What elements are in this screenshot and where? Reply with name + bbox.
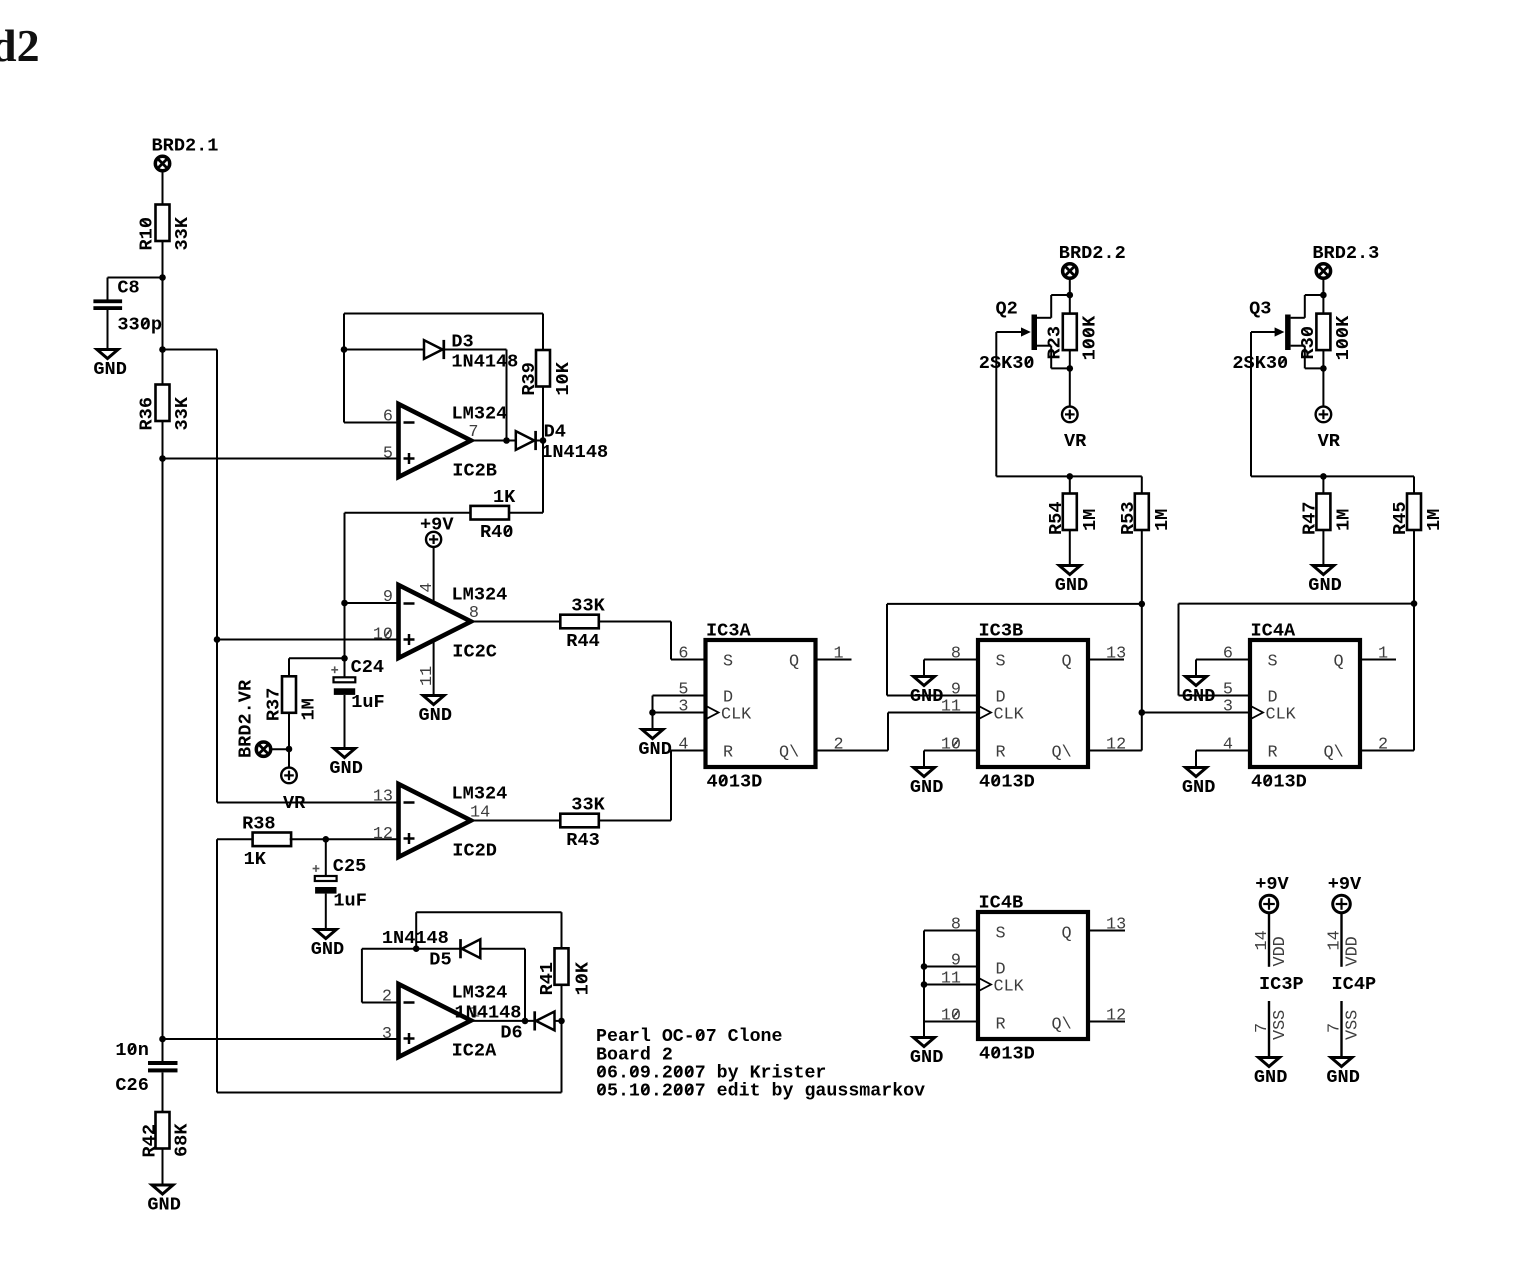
wire — [1179, 695, 1251, 697]
junction — [649, 709, 656, 716]
svg-text:2: 2 — [382, 988, 392, 1007]
pin number 4 — [418, 583, 437, 593]
svg-text:3: 3 — [678, 698, 688, 717]
wire — [1142, 712, 1250, 714]
svg-text:BRD2.2: BRD2.2 — [1059, 243, 1126, 264]
wire — [924, 984, 978, 986]
junction — [159, 455, 166, 462]
ground — [311, 930, 344, 960]
pin stub Q (IC3B pin 13) — [1088, 659, 1124, 661]
capacitor C24 — [331, 657, 384, 713]
wire — [888, 712, 978, 714]
svg-text:Board 2: Board 2 — [596, 1045, 673, 1065]
junction — [1320, 292, 1327, 299]
junction — [1139, 601, 1146, 608]
wire — [1322, 278, 1324, 295]
resistor R10 — [137, 205, 194, 251]
power symbol +9V — [1333, 895, 1351, 913]
wire — [1322, 350, 1324, 368]
svg-text:GND: GND — [147, 1194, 180, 1215]
resistor R53 — [1118, 494, 1173, 536]
wire — [599, 820, 671, 822]
resistor R43 — [560, 795, 605, 851]
wire — [1195, 660, 1197, 677]
svg-text:GND: GND — [638, 739, 671, 760]
junction — [522, 1018, 529, 1025]
svg-text:1N4148: 1N4148 — [455, 1002, 522, 1023]
transistor Q2 (2SK30) — [996, 295, 1070, 368]
wire — [1413, 604, 1415, 751]
svg-text:IC4P: IC4P — [1332, 974, 1377, 995]
wire — [217, 1092, 562, 1094]
svg-text:Q\: Q\ — [1324, 744, 1344, 763]
svg-text:7: 7 — [1253, 1023, 1272, 1033]
wire — [471, 621, 560, 623]
svg-text:R30: R30 — [1298, 326, 1319, 359]
wire — [325, 839, 327, 876]
pin stub Q (IC4B pin 13) — [1089, 930, 1125, 932]
resistor R41 — [537, 948, 594, 995]
wire — [887, 695, 978, 697]
resistor R44 — [560, 596, 605, 652]
wire — [671, 659, 706, 661]
wire — [1088, 750, 1142, 752]
svg-text:R40: R40 — [480, 522, 513, 543]
wire — [163, 458, 399, 460]
junction — [286, 746, 293, 753]
wire — [599, 621, 671, 623]
svg-text:4013D: 4013D — [1251, 772, 1307, 793]
io pin BRD2.1 — [155, 156, 169, 170]
wire — [216, 350, 218, 803]
ground — [638, 730, 671, 760]
svg-text:12: 12 — [1106, 736, 1126, 755]
wire — [507, 512, 543, 514]
wire — [555, 1020, 562, 1022]
svg-text:GND: GND — [910, 777, 943, 798]
svg-text:CLK: CLK — [994, 978, 1025, 997]
op-amp IC2D — [399, 784, 472, 857]
wire — [444, 349, 507, 351]
svg-text:7: 7 — [1325, 1023, 1344, 1033]
svg-text:D5: D5 — [429, 950, 451, 971]
wire — [670, 751, 672, 821]
pin number — [941, 1007, 961, 1026]
svg-text:GND: GND — [1326, 1067, 1359, 1088]
junction — [1067, 473, 1074, 480]
svg-text:8: 8 — [469, 604, 479, 623]
ground — [1326, 1058, 1359, 1088]
junction — [1320, 473, 1327, 480]
svg-text:IC3P: IC3P — [1259, 974, 1304, 995]
flip-flop IC3B — [978, 621, 1088, 793]
svg-text:R37: R37 — [263, 688, 284, 721]
svg-text:GND: GND — [910, 1047, 943, 1068]
wire — [561, 912, 563, 949]
svg-text:LM324: LM324 — [452, 983, 508, 1004]
svg-text:R53: R53 — [1118, 502, 1139, 535]
wire — [433, 641, 435, 696]
svg-text:Q\: Q\ — [1052, 744, 1072, 763]
svg-text:IC4A: IC4A — [1251, 621, 1296, 642]
wire — [1322, 530, 1324, 566]
svg-text:2: 2 — [1378, 736, 1388, 755]
wire — [1141, 530, 1143, 604]
svg-text:11: 11 — [941, 698, 961, 717]
resistor R37 — [263, 676, 319, 721]
junction — [323, 836, 330, 843]
wire — [361, 949, 363, 1003]
wire — [924, 966, 978, 968]
svg-text:GND: GND — [1308, 575, 1341, 596]
svg-text:IC2B: IC2B — [452, 461, 497, 482]
wire — [653, 695, 706, 697]
junction — [341, 655, 348, 662]
wire — [1069, 476, 1071, 494]
wire — [288, 749, 290, 768]
wire — [923, 1022, 925, 1038]
wire — [1178, 604, 1180, 696]
wire — [561, 1021, 563, 1093]
wire — [887, 603, 1142, 605]
wire — [996, 475, 1142, 477]
wire — [1413, 530, 1415, 604]
svg-text:D4: D4 — [544, 421, 566, 442]
svg-text:1M: 1M — [1080, 509, 1101, 531]
resistor R42 — [140, 1112, 193, 1158]
wire — [288, 658, 290, 676]
label 2SK30 (Q3) — [1232, 353, 1288, 374]
wire — [1195, 751, 1197, 768]
wire — [107, 310, 109, 350]
svg-text:GND: GND — [311, 939, 344, 960]
svg-text:2SK30: 2SK30 — [1232, 353, 1288, 374]
svg-text:7: 7 — [468, 423, 478, 442]
wire — [561, 984, 563, 1021]
svg-text:9: 9 — [383, 588, 393, 607]
wire — [289, 657, 345, 659]
svg-text:GND: GND — [1055, 575, 1088, 596]
resistor R40 — [471, 487, 517, 543]
junction — [413, 945, 420, 952]
svg-text:1uF: 1uF — [351, 692, 384, 713]
wire — [163, 1038, 399, 1040]
wire — [995, 332, 997, 476]
svg-text:100K: 100K — [1333, 315, 1354, 360]
wire — [1196, 750, 1250, 752]
flip-flop IC3A — [706, 621, 816, 793]
diode D4 — [516, 431, 536, 450]
wire — [1069, 350, 1071, 368]
wire — [923, 751, 925, 768]
svg-text:6: 6 — [383, 408, 393, 427]
wire — [652, 713, 654, 730]
svg-text:GND: GND — [93, 359, 126, 380]
wire — [416, 911, 561, 913]
junction — [921, 963, 928, 970]
svg-text:05.10.2007 edit by gaussmarkov: 05.10.2007 edit by gaussmarkov — [596, 1082, 925, 1102]
power pin VDD 14 (IC3P) — [1268, 913, 1270, 967]
svg-text:Q2: Q2 — [996, 299, 1018, 320]
pin number — [941, 736, 961, 755]
svg-text:11: 11 — [418, 666, 437, 686]
svg-text:S: S — [723, 653, 733, 672]
wire — [1322, 368, 1324, 406]
wire — [506, 350, 508, 441]
wire — [217, 639, 399, 641]
svg-text:4013D: 4013D — [707, 772, 763, 793]
svg-text:S: S — [996, 925, 1006, 944]
svg-text:CLK: CLK — [721, 706, 752, 725]
svg-text:CLK: CLK — [1266, 706, 1297, 725]
svg-text:1M: 1M — [298, 698, 319, 720]
wire — [344, 422, 399, 424]
ground — [1055, 566, 1088, 596]
svg-text:13: 13 — [373, 788, 393, 807]
wire — [162, 171, 164, 206]
wire — [345, 602, 399, 604]
wire — [344, 313, 543, 315]
wire — [924, 659, 978, 661]
text block: title and dates — [596, 1027, 925, 1102]
svg-text:1N4148: 1N4148 — [382, 928, 449, 949]
svg-text:10n: 10n — [115, 1040, 148, 1061]
svg-text:1uF: 1uF — [333, 891, 366, 912]
wire — [536, 440, 543, 442]
svg-text:1: 1 — [1378, 645, 1388, 664]
svg-text:BRD2.1: BRD2.1 — [152, 136, 219, 157]
junction — [1139, 709, 1146, 716]
svg-text:4: 4 — [418, 583, 437, 593]
diode D6 — [535, 1011, 555, 1030]
svg-text:R43: R43 — [566, 830, 599, 851]
svg-text:33K: 33K — [172, 396, 193, 430]
svg-text:3: 3 — [1223, 698, 1233, 717]
wire — [1069, 368, 1071, 406]
wire — [216, 839, 218, 1092]
svg-text:VR: VR — [1064, 431, 1087, 452]
junction — [1320, 365, 1327, 372]
wire — [290, 838, 399, 840]
svg-text:R: R — [723, 744, 733, 763]
wire — [270, 748, 289, 750]
svg-text:R38: R38 — [242, 814, 275, 835]
svg-text:10K: 10K — [572, 961, 593, 995]
wire — [362, 1002, 399, 1004]
wire — [542, 314, 544, 351]
svg-text:33K: 33K — [172, 216, 193, 250]
svg-text:R: R — [996, 1016, 1006, 1035]
svg-text:6: 6 — [1223, 645, 1233, 664]
ground — [93, 350, 126, 380]
ground — [910, 768, 943, 798]
svg-text:R: R — [1268, 744, 1278, 763]
svg-text:1K: 1K — [244, 849, 267, 870]
wire — [345, 512, 471, 514]
ground — [910, 1038, 943, 1068]
svg-text:R47: R47 — [1300, 502, 1321, 535]
svg-text:R44: R44 — [566, 631, 599, 652]
resistor R45 — [1390, 494, 1445, 536]
wire — [924, 930, 978, 932]
svg-text:33K: 33K — [571, 795, 605, 816]
svg-text:S: S — [996, 653, 1006, 672]
wire — [653, 712, 706, 714]
ground — [1254, 1058, 1287, 1088]
transistor Q3 (2SK30) — [1251, 295, 1323, 368]
svg-text:5: 5 — [383, 445, 393, 464]
wire — [325, 894, 327, 930]
ground — [1182, 677, 1215, 707]
wire — [162, 1149, 164, 1186]
wire — [288, 712, 290, 749]
resistor R39 — [519, 350, 574, 396]
svg-text:8: 8 — [951, 916, 961, 935]
wire — [1196, 659, 1250, 661]
wire — [886, 604, 888, 696]
wire — [362, 948, 461, 950]
svg-text:BRD2.VR: BRD2.VR — [236, 679, 257, 758]
ground — [910, 677, 943, 707]
capacitor C26 — [115, 1040, 177, 1096]
svg-text:C25: C25 — [333, 856, 366, 877]
svg-text:R23: R23 — [1044, 326, 1065, 359]
junction — [1067, 292, 1074, 299]
wire — [1069, 530, 1071, 566]
svg-text:1: 1 — [834, 645, 844, 664]
svg-text:1M: 1M — [1333, 509, 1354, 531]
svg-text:14: 14 — [1253, 930, 1272, 950]
svg-text:IC2D: IC2D — [452, 841, 497, 862]
svg-text:IC4B: IC4B — [979, 893, 1024, 914]
wire — [923, 931, 925, 1022]
svg-text:LM324: LM324 — [452, 585, 508, 606]
power symbol +9V — [1260, 895, 1278, 913]
pin stub Q (IC3A pin 1) — [816, 659, 852, 661]
wire — [433, 547, 435, 604]
wire — [1069, 278, 1071, 295]
wire — [671, 750, 706, 752]
resistor R54 — [1046, 494, 1101, 536]
svg-text:+9V: +9V — [1328, 874, 1362, 895]
wire — [1069, 295, 1071, 314]
resistor R23 — [1044, 314, 1100, 361]
svg-text:Q: Q — [789, 653, 799, 672]
wire — [217, 802, 399, 804]
svg-text:68K: 68K — [172, 1123, 193, 1157]
svg-text:VDD: VDD — [1344, 936, 1363, 966]
svg-text:R45: R45 — [1390, 502, 1411, 535]
power pin VSS 7 (IC3P) — [1268, 1001, 1270, 1058]
flip-flop IC4A — [1250, 621, 1360, 793]
junction — [159, 274, 166, 281]
wire — [1322, 476, 1324, 494]
svg-text:1K: 1K — [493, 487, 516, 508]
wire — [1413, 476, 1415, 494]
svg-text:1M: 1M — [1152, 509, 1173, 531]
wire — [344, 349, 424, 351]
svg-text:IC2C: IC2C — [452, 642, 497, 663]
wire — [344, 513, 346, 677]
ground — [1182, 768, 1215, 798]
svg-text:d2: d2 — [0, 20, 40, 71]
svg-text:GND: GND — [1182, 777, 1215, 798]
svg-text:R54: R54 — [1046, 502, 1067, 535]
ground — [419, 696, 452, 726]
svg-text:1N4148: 1N4148 — [541, 442, 608, 463]
svg-text:IC3B: IC3B — [979, 621, 1024, 642]
svg-text:D6: D6 — [500, 1023, 522, 1044]
svg-text:BRD2.3: BRD2.3 — [1312, 243, 1379, 264]
svg-text:9: 9 — [951, 952, 961, 971]
pin number 11 — [418, 666, 437, 686]
svg-text:R: R — [996, 744, 1006, 763]
svg-text:330p: 330p — [117, 315, 162, 336]
svg-text:LM324: LM324 — [452, 404, 508, 425]
junction — [503, 437, 510, 444]
svg-text:100K: 100K — [1079, 315, 1100, 360]
svg-text:1M: 1M — [1424, 509, 1445, 531]
pin number — [373, 626, 393, 645]
junction — [159, 346, 166, 353]
wire — [1322, 295, 1324, 314]
svg-text:IC3A: IC3A — [706, 621, 751, 642]
power symbol VR — [281, 768, 297, 784]
svg-text:Q3: Q3 — [1249, 299, 1271, 320]
wire — [471, 1020, 535, 1022]
power symbol +9V — [426, 532, 441, 547]
junction — [558, 1018, 565, 1025]
label 2SK30 (Q2) — [979, 353, 1035, 374]
svg-text:06.09.2007 by Krister: 06.09.2007 by Krister — [596, 1064, 826, 1084]
svg-text:R42: R42 — [140, 1124, 161, 1157]
wire — [1251, 475, 1414, 477]
junction — [341, 346, 348, 353]
op-amp IC2B — [399, 404, 472, 477]
junction — [159, 1036, 166, 1043]
svg-text:4013D: 4013D — [979, 772, 1035, 793]
wire — [652, 696, 654, 713]
io pin BRD2.3 — [1316, 264, 1330, 278]
svg-text:Q: Q — [1062, 925, 1072, 944]
power pin VDD 14 (IC4P) — [1340, 913, 1342, 967]
io pin BRD2.VR — [256, 742, 270, 756]
resistor R47 — [1300, 494, 1355, 536]
pin stub Q (IC4A pin 1) — [1360, 659, 1396, 661]
svg-text:Q\: Q\ — [1052, 1016, 1072, 1035]
ground — [147, 1185, 180, 1215]
wire — [1179, 603, 1415, 605]
svg-text:11: 11 — [941, 970, 961, 989]
svg-text:VDD: VDD — [1271, 936, 1290, 966]
wire — [670, 622, 672, 660]
wire — [344, 695, 346, 749]
capacitor C8 — [93, 278, 162, 336]
wire — [162, 241, 164, 385]
power pin VSS 7 (IC4P) — [1340, 1001, 1342, 1058]
junction — [921, 981, 928, 988]
capacitor C25 — [313, 856, 367, 912]
svg-text:14: 14 — [1325, 930, 1344, 950]
svg-text:Q: Q — [1334, 653, 1344, 672]
junction — [1067, 365, 1074, 372]
op-amp IC2C — [399, 585, 472, 658]
svg-text:4: 4 — [1223, 736, 1233, 755]
svg-text:C26: C26 — [115, 1075, 148, 1096]
wire — [542, 386, 544, 513]
junction — [1411, 600, 1418, 607]
wire — [108, 277, 163, 279]
